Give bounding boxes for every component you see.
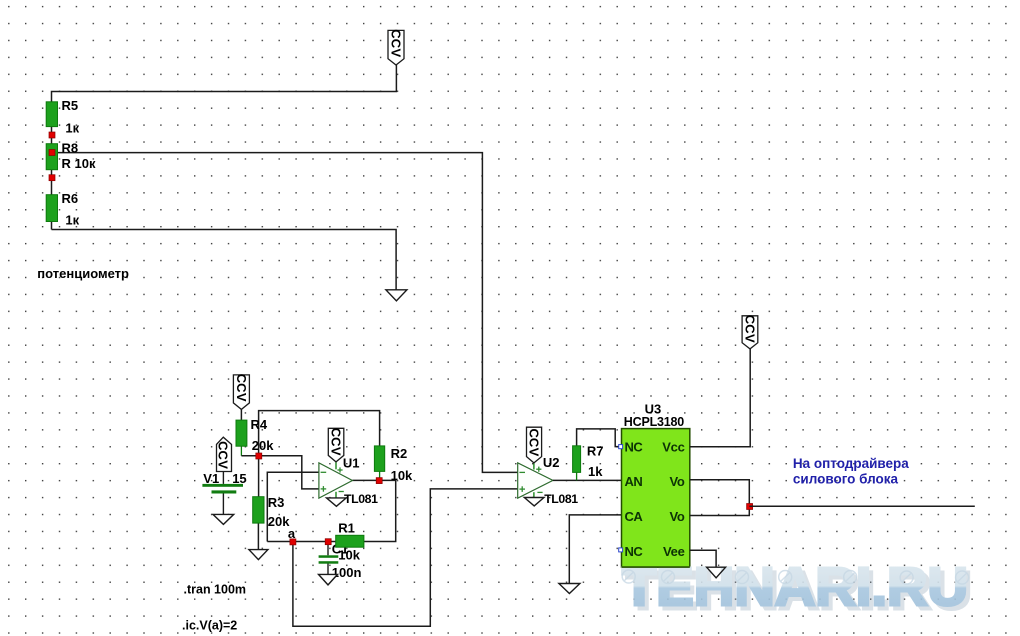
wire C1 to ground [327,564,329,575]
wire R1 right to U1 output [352,480,395,541]
svg-text:Vo: Vo [669,474,684,489]
node junction a [290,539,296,545]
wire potentiometer chain vertical [51,102,53,230]
wire R3 to ground [257,523,259,550]
ground under V1 [213,514,234,524]
svg-text:C: C [234,383,249,393]
svg-text:R3: R3 [268,495,285,510]
svg-text:C: C [234,374,249,384]
wire feedback top R2 [259,411,380,456]
VCC flag above U1 [328,428,344,462]
svg-text:1k: 1k [588,464,603,479]
node junction U1 output [376,478,382,484]
svg-text:C: C [389,39,404,49]
node junction wiper on R8 [49,150,55,156]
svg-text:C: C [329,428,344,438]
resistor R2 [374,446,384,472]
ground under R3 [249,550,268,560]
wire wiper tap to U2 minus input [52,153,518,473]
wire bottom node a to R1 [267,541,335,543]
node junction output [747,504,753,510]
svg-text:R5: R5 [62,98,79,113]
svg-text:1к: 1к [65,120,79,135]
svg-text:потенциометр: потенциометр [37,266,129,281]
wire long output [749,505,974,507]
svg-text:V: V [526,448,541,457]
wire R2 bottom lead [379,471,381,480]
wire R7 bottom lead [576,472,578,480]
svg-text:C: C [216,451,231,461]
resistor R8 [46,144,57,170]
wire top loop from VCC to R5 chain [52,65,397,102]
op-amp U2 [518,463,553,498]
svg-text:20k: 20k [268,514,290,529]
op-amp U1 [319,462,353,498]
svg-text:C: C [329,437,344,447]
svg-text:TL081: TL081 [544,492,578,506]
IC U3 HCPL3180 box [622,429,690,567]
svg-text:1к: 1к [65,212,79,227]
ground under U2 [524,498,544,506]
ground under U1 [327,498,347,506]
svg-text:TEHNARI.RU: TEHNARI.RU [622,557,968,617]
wire node a loop to U2 plus input [293,489,518,626]
svg-text:C: C [216,441,231,451]
VCC flag above U2 [526,427,541,463]
wire U2 output to AN pin [553,479,622,481]
svg-text:Vo: Vo [669,509,684,524]
resistor R5 [46,102,57,127]
resistor R4 [236,420,247,446]
svg-text:AN: AN [625,474,643,489]
IC box bottom border redraw [622,566,690,568]
svg-text:R4: R4 [251,417,268,432]
resistor R1 horizontal [336,535,364,547]
svg-text:10k: 10k [338,548,360,563]
wire chain bottom to ground [52,230,397,290]
ground CA [559,584,580,594]
node junction R4-R3 [256,453,262,459]
svg-text:R1: R1 [338,520,355,535]
svg-text:TL081: TL081 [344,492,378,506]
svg-text:NC: NC [625,440,644,455]
wire CA pin to ground [569,515,621,584]
svg-text:U1: U1 [343,456,360,471]
svg-text:C: C [526,429,541,439]
ground under C1 [319,574,338,585]
node junction R8-R6 [49,175,55,181]
svg-text:V: V [234,393,249,402]
resistor R6 [46,195,57,222]
svg-text:V: V [329,447,344,456]
svg-text:V: V [389,48,404,57]
VCC flag top [388,29,404,65]
resistor R3 [253,497,264,523]
svg-text:a: a [288,526,296,541]
svg-text:.tran 100m: .tran 100m [184,582,247,596]
svg-text:R8: R8 [62,140,79,155]
wire Vee pin to ground [690,550,716,567]
svg-text:R7: R7 [587,443,604,458]
wire C1 top lead [327,544,329,555]
svg-text:100n: 100n [332,565,362,580]
svg-text:R 10к: R 10к [62,156,96,171]
svg-text:R6: R6 [62,191,79,206]
wire node to U1 plus input [241,456,319,489]
wire R7 top to NC pin [577,429,622,447]
ground [386,290,407,301]
svg-text:силового блока: силового блока [793,472,899,487]
wire VCC flag to battery V1 [222,472,224,484]
wire battery to ground [222,494,224,515]
wire R4 bottom lead [240,446,242,456]
battery V1 top plate [202,484,243,487]
resistor R7 [573,446,581,473]
svg-text:20k: 20k [252,438,274,453]
pin square NC1 [619,445,623,449]
svg-text:R2: R2 [391,446,408,461]
svg-text:CA: CA [625,509,644,524]
wire U1 minus input from node a [267,472,319,541]
svg-text:C: C [526,438,541,448]
pin square NC4 [619,548,623,552]
watermark tehnari.ru [622,557,972,621]
svg-text:C: C [742,315,757,325]
svg-text:15: 15 [232,471,246,486]
svg-text:.ic.V(a)=2: .ic.V(a)=2 [182,618,237,632]
svg-text:HCPL3180: HCPL3180 [624,415,684,429]
ground Vee [707,567,726,578]
svg-text:V1: V1 [203,471,219,486]
svg-text:V: V [742,334,757,343]
svg-text:На оптодрайвера: На оптодрайвера [793,456,909,471]
svg-text:V: V [216,460,231,469]
wire node to R3 [258,456,260,497]
VCC flag above U3 [742,315,758,349]
battery V1 bottom plate [212,490,237,493]
VCC flag above R4 [233,374,249,410]
wire Vcc pin to VCC flag [690,349,750,447]
capacitor C1 plates [319,555,339,558]
svg-text:C: C [742,324,757,334]
svg-text:C: C [389,29,404,39]
svg-text:U2: U2 [543,455,560,470]
svg-text:Vcc: Vcc [662,440,684,455]
wire Vo pins join [690,480,750,516]
node junction R1 left [325,539,331,545]
node junction R5-R8 [49,132,55,138]
VCC flag V1 apex up [216,437,232,471]
svg-text:10k: 10k [391,468,413,483]
wire VCC to R4 [240,409,242,420]
